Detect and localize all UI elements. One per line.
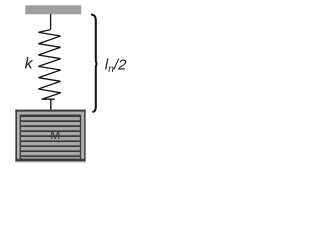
spring k coils [38, 30, 60, 100]
mass border left [15, 110, 17, 162]
svg-text:ln/2: ln/2 [105, 56, 127, 75]
mass block gray body [15, 110, 85, 163]
spring bottom stem wire [50, 99, 52, 111]
svg-text:M: M [50, 128, 60, 142]
brace } for l_n/2 [92, 15, 98, 112]
mass border bottom [15, 159, 85, 161]
mass border top [15, 110, 85, 112]
mass border right [84, 110, 85, 162]
mass stripes [21, 116, 80, 156]
svg-text:k: k [25, 55, 34, 72]
fixed support bar [25, 5, 81, 14]
spring top stem wire [50, 14, 52, 30]
mass striped panel [20, 115, 80, 159]
